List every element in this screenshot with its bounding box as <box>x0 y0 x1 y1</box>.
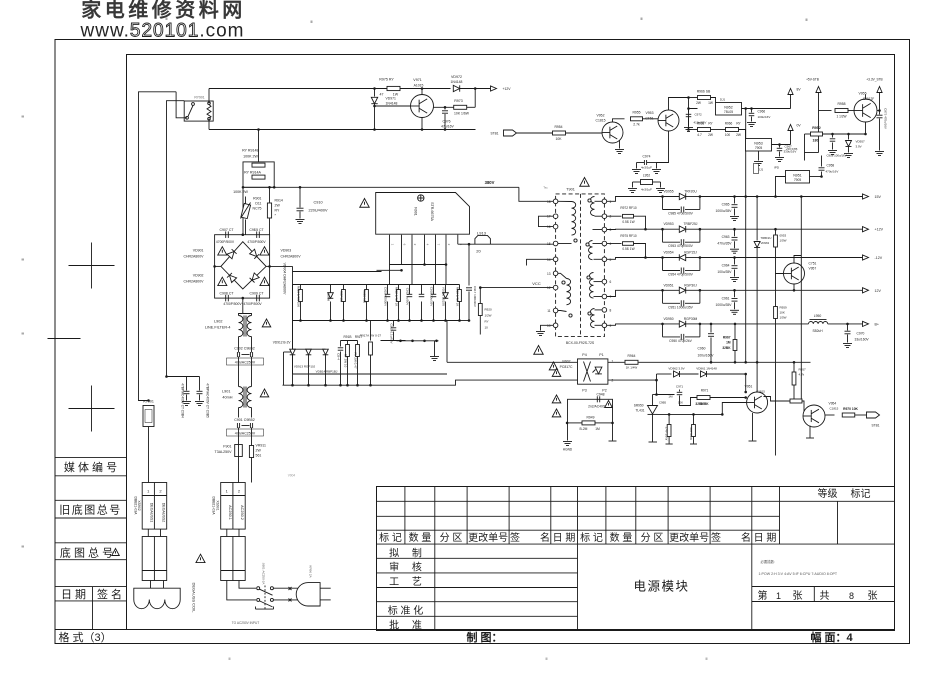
svg-text:RY: RY <box>485 320 489 324</box>
svg-text:VD902: VD902 <box>193 274 204 278</box>
svg-text:5: 5 <box>610 258 612 262</box>
svg-text:VR911: VR911 <box>256 444 266 448</box>
svg-text:R954: R954 <box>554 125 562 129</box>
svg-text:1/5W: 1/5W <box>780 316 787 320</box>
svg-text:STB1: STB1 <box>872 424 880 428</box>
svg-text:VD912 B-2V: VD912 B-2V <box>273 341 292 345</box>
svg-text:T3AL250V: T3AL250V <box>215 450 233 454</box>
svg-text:审 核: 审 核 <box>389 561 422 574</box>
svg-text:VD971: VD971 <box>386 97 396 101</box>
svg-text:VCC: VCC <box>532 281 541 286</box>
svg-text:R91B: R91B <box>344 335 352 339</box>
svg-text:8: 8 <box>610 308 612 312</box>
svg-text:签 名: 签 名 <box>97 587 122 601</box>
svg-text:VD972: VD972 <box>451 75 462 79</box>
svg-text:R901: R901 <box>253 197 261 201</box>
svg-text:7905: 7905 <box>794 178 802 182</box>
svg-text:100K 2W: 100K 2W <box>233 190 248 194</box>
svg-text:TRF20U: TRF20U <box>684 190 697 194</box>
svg-text:1N4148: 1N4148 <box>386 102 398 106</box>
svg-text:DBB21-03A: DBB21-03A <box>212 497 216 516</box>
svg-text:1N4148: 1N4148 <box>451 80 463 84</box>
svg-text:STB1: STB1 <box>491 132 499 136</box>
svg-text:2W: 2W <box>708 133 713 137</box>
svg-text:S901-AC250-2A: S901-AC250-2A <box>262 563 266 585</box>
svg-text:www.520101.com: www.520101.com <box>80 21 245 42</box>
svg-text:12: 12 <box>547 286 551 290</box>
svg-text:标记: 标记 <box>851 488 871 500</box>
svg-text:1W: 1W <box>708 101 713 105</box>
svg-text:R966: R966 <box>725 122 733 126</box>
svg-text:R913 1/4W 15K: R913 1/4W 15K <box>296 286 300 307</box>
svg-text:批 准: 批 准 <box>389 619 422 632</box>
svg-text:0953: 0953 <box>780 234 787 238</box>
svg-text:6: 6 <box>610 280 612 284</box>
svg-text:VD957: VD957 <box>856 140 866 144</box>
svg-text:VD904 DHR2A800V: VD904 DHR2A800V <box>283 263 287 295</box>
svg-text:共: 共 <box>820 590 830 602</box>
svg-text:C971: C971 <box>676 385 684 389</box>
svg-text:470u/35V: 470u/35V <box>717 242 732 246</box>
svg-text:10K: 10K <box>555 137 562 141</box>
svg-text:STR-6675A: STR-6675A <box>430 202 434 221</box>
svg-text:14: 14 <box>547 258 551 262</box>
svg-text:C907 CT: C907 CT <box>219 228 234 232</box>
svg-text:R912 1/4W 1K: R912 1/4W 1K <box>394 287 398 307</box>
svg-text:VD951: VD951 <box>663 283 673 287</box>
svg-text:7905: 7905 <box>755 146 763 150</box>
svg-text:20: 20 <box>476 249 481 254</box>
svg-text:L913: L913 <box>477 231 487 236</box>
svg-text:47B 1/2W: 47B 1/2W <box>689 427 693 440</box>
svg-text:2W: 2W <box>275 204 281 208</box>
svg-text:17: 17 <box>547 215 551 219</box>
svg-text:家电维修资料网: 家电维修资料网 <box>81 0 246 22</box>
svg-text:47BP/AC400V CT C9B4: 47BP/AC400V CT C9B4 <box>181 383 185 418</box>
svg-text:R966 SB: R966 SB <box>697 90 711 94</box>
svg-text:C9B5: C9B5 <box>659 401 666 405</box>
svg-text:C958: C958 <box>827 164 835 168</box>
svg-text:R973: R973 <box>454 99 463 103</box>
svg-text:4n3/1uF: 4n3/1uF <box>641 166 652 170</box>
svg-text:RY: RY <box>275 209 280 213</box>
svg-text:2W: 2W <box>696 101 701 105</box>
svg-text:C902 C9B52: C902 C9B52 <box>234 347 255 351</box>
svg-text:L901: L901 <box>222 390 230 394</box>
svg-text:R975 RY: R975 RY <box>379 78 394 82</box>
svg-text:R970 10K: R970 10K <box>843 407 858 411</box>
svg-text:DEGAUSS COIL: DEGAUSS COIL <box>192 582 197 613</box>
svg-text:R955: R955 <box>632 111 640 115</box>
svg-text:100u/35V: 100u/35V <box>717 270 732 274</box>
svg-text:VD950: VD950 <box>663 317 673 321</box>
svg-text:工 艺: 工 艺 <box>389 576 422 588</box>
svg-text:CHR2A800V: CHR2A800V <box>281 255 302 259</box>
svg-text:C985 470u/500V: C985 470u/500V <box>668 212 694 216</box>
svg-text:+5V,STB: +5V,STB <box>786 147 798 151</box>
svg-text:电源模块: 电源模块 <box>633 580 689 594</box>
svg-text:R92B 100: R92B 100 <box>362 290 366 304</box>
svg-text:47n/AC250V: 47n/AC250V <box>235 431 256 435</box>
svg-text:DEGAUSS1: DEGAUSS1 <box>150 503 154 523</box>
svg-text:标 记: 标 记 <box>379 532 402 544</box>
svg-text:LINE.FILTER-4: LINE.FILTER-4 <box>205 326 231 330</box>
svg-text:T901: T901 <box>566 188 575 192</box>
svg-text:R964: R964 <box>628 354 636 358</box>
svg-text:32BK: 32BK <box>695 402 704 406</box>
svg-text:RY R914B: RY R914B <box>242 149 259 153</box>
svg-text:1000u/35V: 1000u/35V <box>716 303 733 307</box>
svg-text:C958 100u/16V: C958 100u/16V <box>826 154 846 158</box>
svg-text:R959: R959 <box>780 306 788 310</box>
svg-text:R914: R914 <box>275 199 283 203</box>
svg-text:C961: C961 <box>722 296 730 300</box>
svg-text:N952: N952 <box>724 106 733 110</box>
svg-text:9: 9 <box>610 324 612 328</box>
svg-text:561: 561 <box>256 454 262 458</box>
svg-text:8V: 8V <box>797 88 802 92</box>
svg-text:C901 C9B52: C901 C9B52 <box>234 418 255 422</box>
svg-text:470u/16V: 470u/16V <box>826 170 839 174</box>
svg-text:签 名: 签 名 <box>510 531 550 544</box>
svg-text:C1815: C1815 <box>596 119 606 123</box>
svg-text:PC817C: PC817C <box>560 365 573 369</box>
svg-text:DEGAUSS2: DEGAUSS2 <box>162 503 166 523</box>
svg-text:L950: L950 <box>814 314 822 318</box>
svg-text:C973 470u/16V: C973 470u/16V <box>884 108 888 129</box>
svg-text:格 式（3）: 格 式（3） <box>59 630 112 644</box>
svg-text:12V: 12V <box>875 289 882 293</box>
svg-text:V957: V957 <box>809 267 817 271</box>
svg-text:0.5Б 1W: 0.5Б 1W <box>622 220 634 224</box>
svg-text:RY 2W 10: RY 2W 10 <box>343 354 347 368</box>
svg-text:BCX-00-F92S-72S: BCX-00-F92S-72S <box>566 341 595 345</box>
svg-text:C751: C751 <box>809 262 817 266</box>
svg-text:4.7: 4.7 <box>697 133 702 137</box>
svg-text:2W: 2W <box>256 449 262 453</box>
svg-text:TO AC250V INPUT: TO AC250V INPUT <box>232 621 259 625</box>
svg-text:CT51: CT51 <box>645 117 653 121</box>
svg-text:C976: C976 <box>442 120 450 124</box>
svg-text:V952: V952 <box>597 114 605 118</box>
svg-text:2.4V 1/2W: 2.4V 1/2W <box>665 427 669 441</box>
svg-text:1M: 1M <box>726 341 731 345</box>
svg-text:RY R914A: RY R914A <box>244 171 261 175</box>
svg-text:VDB14 RBP1BJ: VDB14 RBP1BJ <box>316 370 338 374</box>
svg-text:分 区: 分 区 <box>440 532 463 544</box>
svg-text:10K: 10K <box>780 311 785 315</box>
svg-text:VD954: VD954 <box>663 251 673 255</box>
svg-text:7: 7 <box>610 295 612 299</box>
svg-text:1K 1/4W: 1K 1/4W <box>626 366 638 370</box>
svg-text:10K: 10K <box>678 401 683 405</box>
svg-text:4700P/500V: 4700P/500V <box>247 240 266 244</box>
svg-text:C915 4/2000V: C915 4/2000V <box>383 287 387 306</box>
svg-text:0.5Б 1W: 0.5Б 1W <box>622 247 634 251</box>
svg-text:旧底图总号: 旧底图总号 <box>59 503 122 517</box>
svg-text:D11: D11 <box>255 202 261 206</box>
svg-text:第: 第 <box>758 589 768 602</box>
svg-text:制 图：: 制 图： <box>467 630 503 644</box>
svg-text:3.9V: 3.9V <box>856 145 862 149</box>
svg-text:R919 1/4W 1K: R919 1/4W 1K <box>455 287 459 307</box>
svg-text:C950 470p/2kV: C950 470p/2kV <box>669 339 693 343</box>
svg-text:日 期: 日 期 <box>754 532 777 544</box>
svg-text:C9Б5 CT: C9Б5 CT <box>249 228 264 232</box>
svg-text:1: 1 <box>612 360 614 364</box>
svg-text:1000u/35V: 1000u/35V <box>716 209 733 213</box>
svg-text:RGP30M: RGP30M <box>684 317 698 321</box>
svg-text:标 准 化: 标 准 化 <box>388 604 424 617</box>
svg-text:3: 3 <box>610 228 612 232</box>
svg-text:TL431: TL431 <box>635 409 644 413</box>
svg-text:VD909: VD909 <box>326 292 330 302</box>
svg-text:数 量: 数 量 <box>610 531 633 544</box>
svg-text:DBB21-03A: DBB21-03A <box>133 497 137 516</box>
svg-text:RY 2W 0.47: RY 2W 0.47 <box>353 352 357 368</box>
svg-text:P3: P3 <box>582 389 586 393</box>
svg-text:分 区: 分 区 <box>641 532 664 544</box>
svg-text:P4: P4 <box>582 353 586 357</box>
svg-text:C963: C963 <box>722 235 730 239</box>
svg-text:张: 张 <box>793 590 803 602</box>
svg-text:VD903: VD903 <box>281 249 292 253</box>
svg-text:10: 10 <box>485 326 489 330</box>
svg-text:+12V: +12V <box>875 228 884 232</box>
svg-text:C912 1u/50V: C912 1u/50V <box>405 288 409 306</box>
svg-text:R917A 2W 0-27: R917A 2W 0-27 <box>360 334 382 338</box>
svg-text:100u/16V: 100u/16V <box>758 115 771 119</box>
svg-text:R958: R958 <box>837 102 845 106</box>
svg-text:签 名: 签 名 <box>711 531 751 544</box>
svg-text:媒 体 编 号: 媒 体 编 号 <box>64 460 117 474</box>
svg-text:V953: V953 <box>646 111 654 115</box>
svg-text:RY901: RY901 <box>194 96 204 100</box>
svg-text:+12V: +12V <box>503 87 512 91</box>
svg-text:1:POW 2:H 3:V 4:AV 5:IF 6: 1:POW 2:H 3:V 4:AV 5:IF 6:CPU 7:AUDIO 8:… <box>759 572 838 576</box>
svg-text:1/5W: 1/5W <box>780 239 787 243</box>
svg-text:47BP/AC400V CT C9B5: 47BP/AC400V CT C9B5 <box>206 383 210 418</box>
svg-text:0V: 0V <box>797 124 802 128</box>
svg-text:100u/160V: 100u/160V <box>698 354 715 358</box>
svg-text:C909 CT: C909 CT <box>249 292 264 296</box>
svg-text:1M: 1M <box>595 427 600 431</box>
svg-text:8: 8 <box>849 591 854 601</box>
svg-text:KPB6 2A: KPB6 2A <box>309 565 313 577</box>
svg-text:VD953: VD953 <box>663 222 673 226</box>
svg-text:C9012F: C9012F <box>863 97 874 101</box>
svg-text:R957: R957 <box>799 368 807 372</box>
svg-text:IPD: IPD <box>774 166 780 170</box>
svg-text:R971: R971 <box>701 389 709 393</box>
svg-text:C966: C966 <box>758 110 766 114</box>
svg-text:等级: 等级 <box>818 487 838 500</box>
svg-text:底 图 总 号: 底 图 总 号 <box>60 546 113 560</box>
svg-text:C948: C948 <box>596 393 604 397</box>
svg-text:拟 制: 拟 制 <box>389 547 422 560</box>
svg-text:标 记: 标 记 <box>580 532 603 544</box>
svg-text:B+: B+ <box>875 322 880 326</box>
svg-text:10K 1/6W: 10K 1/6W <box>454 112 470 116</box>
svg-text:15V: 15V <box>875 195 882 199</box>
svg-text:N951: N951 <box>793 174 802 178</box>
svg-text:VD961 1N4148: VD961 1N4148 <box>696 367 717 371</box>
svg-text:47u/16V: 47u/16V <box>441 125 454 129</box>
svg-text:R975 RF10: R975 RF10 <box>620 234 637 238</box>
svg-text:数 量: 数 量 <box>409 531 432 544</box>
svg-text:R967: R967 <box>723 336 731 340</box>
svg-text:V954: V954 <box>829 402 837 406</box>
svg-text:220U/400V: 220U/400V <box>309 209 328 213</box>
svg-text:40mH: 40mH <box>222 396 232 400</box>
svg-text:15: 15 <box>547 242 551 246</box>
svg-text:VD911 SS2S5: VD911 SS2S5 <box>441 287 445 306</box>
svg-text:4.7k: 4.7k <box>799 373 805 377</box>
svg-text:C965: C965 <box>722 203 730 207</box>
svg-text:-12V: -12V <box>875 256 883 260</box>
svg-text:R968: R968 <box>697 122 705 126</box>
svg-text:NC75: NC75 <box>253 207 262 211</box>
svg-text:DJ1: DJ1 <box>720 98 726 102</box>
svg-text:AC250.1: AC250.1 <box>228 505 232 520</box>
svg-text:2.7k: 2.7k <box>633 123 640 127</box>
svg-text:C908 CT: C908 CT <box>219 292 234 296</box>
svg-text:+3.3V_STB: +3.3V_STB <box>866 78 882 82</box>
svg-text:VD901: VD901 <box>193 249 204 253</box>
svg-text:RGP15J: RGP15J <box>684 251 697 255</box>
svg-text:2: 2 <box>610 215 612 219</box>
svg-text:10: 10 <box>547 324 551 328</box>
svg-text:C1815: C1815 <box>756 390 765 394</box>
svg-text:CHR2A800V: CHR2A800V <box>183 255 204 259</box>
svg-text:F901: F901 <box>223 445 231 449</box>
svg-text:C1815: C1815 <box>830 407 839 411</box>
svg-text:SR950: SR950 <box>634 404 644 408</box>
svg-text:N902: N902 <box>562 360 570 364</box>
svg-text:VD963: VD963 <box>761 241 770 245</box>
svg-text:CHR2A800V: CHR2A800V <box>183 280 204 284</box>
svg-text:P1: P1 <box>599 353 603 357</box>
svg-text:C964: C964 <box>722 264 730 268</box>
svg-text:TRBF2U: TRBF2U <box>761 236 772 240</box>
svg-text:180: 180 <box>813 139 819 143</box>
svg-text:18: 18 <box>547 200 551 204</box>
svg-text:Tsc: Tsc <box>543 186 548 190</box>
svg-text:11: 11 <box>547 309 551 313</box>
svg-text:N901: N901 <box>414 207 418 216</box>
svg-text:47n/AC250V: 47n/AC250V <box>235 360 256 364</box>
svg-text:1/2W: 1/2W <box>485 314 492 318</box>
svg-text:必要描数:: 必要描数: <box>761 559 776 564</box>
svg-text:AC250.2: AC250.2 <box>240 505 244 520</box>
svg-text:1M: 1M <box>668 395 673 399</box>
svg-text:380V: 380V <box>485 180 495 185</box>
svg-text:C91B 10u/35V: C91B 10u/35V <box>429 287 433 307</box>
svg-text:4: 4 <box>610 242 612 246</box>
svg-text:C954 470p/500V: C954 470p/500V <box>668 273 694 277</box>
svg-text:HGND: HGND <box>563 448 573 452</box>
svg-text:L952: L952 <box>643 174 651 178</box>
svg-text:R972 RF10: R972 RF10 <box>620 206 637 210</box>
svg-text:C910: C910 <box>314 201 323 205</box>
svg-text:RGP30J: RGP30J <box>684 283 697 287</box>
svg-text:C970: C970 <box>857 332 865 336</box>
svg-text:78L05: 78L05 <box>724 110 733 114</box>
svg-text:R920: R920 <box>485 308 493 312</box>
svg-text:100K 2W: 100K 2W <box>243 155 258 159</box>
svg-text:幅 面：4: 幅 面：4 <box>811 630 854 644</box>
svg-text:更改单号: 更改单号 <box>669 531 709 544</box>
svg-text:日 期: 日 期 <box>553 532 576 544</box>
svg-text:100: 100 <box>725 133 731 137</box>
svg-text:C953 470p/500V: C953 470p/500V <box>668 244 694 248</box>
svg-text:13: 13 <box>547 272 551 276</box>
svg-text:RGP10J: RGP10J <box>339 291 343 303</box>
svg-text:1: 1 <box>776 591 781 601</box>
svg-text:更改单号: 更改单号 <box>468 531 508 544</box>
svg-text:CB-4: CB-4 <box>336 353 340 360</box>
svg-text:TRBF25J: TRBF25J <box>684 222 698 226</box>
svg-text:2W: 2W <box>736 133 741 137</box>
svg-text:33u/160V: 33u/160V <box>855 338 870 342</box>
svg-text:R949: R949 <box>587 416 595 420</box>
svg-text:VD955: VD955 <box>663 190 673 194</box>
svg-text:+5V-STB: +5V-STB <box>806 78 819 82</box>
svg-text:32BK: 32BK <box>722 346 731 350</box>
svg-text:V971: V971 <box>413 78 421 82</box>
svg-text:A1015: A1015 <box>414 84 424 88</box>
svg-text:1 1/2W: 1 1/2W <box>836 115 846 119</box>
svg-text:L902: L902 <box>214 320 222 324</box>
svg-text:C951 1000u/35V: C951 1000u/35V <box>668 305 694 309</box>
svg-text:B-2M: B-2M <box>580 427 588 431</box>
svg-text:日 期: 日 期 <box>61 588 86 601</box>
svg-text:SB2uH: SB2uH <box>812 329 823 333</box>
svg-text:N953: N953 <box>754 142 763 146</box>
svg-text:4700P/500V: 4700P/500V <box>216 240 235 244</box>
svg-text:C960: C960 <box>698 347 706 351</box>
svg-text:47: 47 <box>380 93 384 97</box>
svg-text:C974: C974 <box>643 155 651 159</box>
svg-text:4n3/1uF: 4n3/1uF <box>641 188 652 192</box>
svg-text:R952: R952 <box>812 126 821 130</box>
svg-text:V904: V904 <box>288 474 296 478</box>
svg-text:C972: C972 <box>695 113 703 117</box>
svg-text:1: 1 <box>610 200 612 204</box>
svg-text:VD913 RGP10J: VD913 RGP10J <box>294 365 316 369</box>
svg-text:16: 16 <box>547 225 551 229</box>
svg-text:VD962 3.9V: VD962 3.9V <box>668 367 684 371</box>
svg-text:C917 100b/2kV: C917 100b/2kV <box>473 286 477 307</box>
svg-text:张: 张 <box>868 590 878 602</box>
